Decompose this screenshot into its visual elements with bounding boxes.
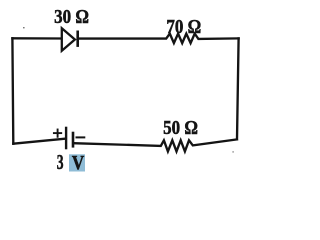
svg-text:50 Ω: 50 Ω [163,117,198,140]
svg-text:70 Ω: 70 Ω [166,16,201,39]
svg-text:3: 3 [57,150,64,174]
svg-text:V: V [72,152,85,174]
svg-text:30 Ω: 30 Ω [54,6,89,29]
